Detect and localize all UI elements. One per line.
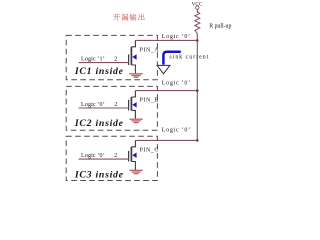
svg-text:IC2 inside: IC2 inside: [74, 118, 124, 129]
transistor Q1 (N-MOSFET): [129, 40, 137, 73]
ground (IC1 source): [129, 74, 142, 77]
IC3 dashed box: [66, 136, 157, 180]
svg-text:Logic ’0’: Logic ’0’: [162, 81, 191, 87]
svg-text:Logic ’0’: Logic ’0’: [81, 153, 105, 159]
svg-text:VCC: VCC: [192, 1, 204, 7]
ground (IC2 source): [129, 119, 142, 122]
wire: gate net IC2: [79, 107, 129, 109]
junction node A: [196, 39, 199, 42]
wire: gate net IC1: [79, 62, 129, 64]
svg-text:PIN_C: PIN_C: [140, 147, 159, 153]
wire: PIN_B net to bus: [135, 90, 197, 92]
wire: PIN_A net to bus: [135, 39, 197, 41]
svg-text:PIN_B: PIN_B: [140, 97, 159, 103]
svg-text:Logic ’0’: Logic ’0’: [81, 102, 105, 108]
svg-text:2: 2: [114, 102, 117, 108]
transistor Q2 (N-MOSFET): [129, 91, 137, 119]
power VCC: [192, 1, 204, 13]
svg-text:Logic ’0’: Logic ’0’: [162, 128, 191, 134]
transistor Q3 (N-MOSFET): [129, 140, 137, 169]
IC2 dashed box: [66, 86, 157, 130]
svg-text:2: 2: [114, 153, 117, 159]
svg-text:IC3 inside: IC3 inside: [74, 170, 124, 181]
svg-text:Logic ’1’: Logic ’1’: [81, 57, 105, 63]
wire: pull-up bus vertical: [196, 33, 198, 140]
svg-text:sink current: sink current: [169, 55, 209, 61]
junction node C: [196, 139, 199, 142]
junction node B: [196, 89, 199, 92]
sink current arrow (blue): [163, 52, 180, 65]
IC1 dashed box: [66, 35, 157, 79]
svg-text:2: 2: [114, 57, 117, 63]
svg-text:IC1 inside: IC1 inside: [74, 66, 124, 77]
ground (IC3 source): [129, 170, 142, 173]
svg-text:PIN_A: PIN_A: [140, 47, 160, 53]
svg-text:Logic ’0’: Logic ’0’: [162, 34, 191, 40]
wire: gate net IC3: [79, 158, 129, 160]
wire: PIN_C net to bus: [135, 139, 197, 141]
resistor R pull-up: [195, 12, 200, 34]
label: title 开漏输出 (open-drain output): [113, 14, 144, 21]
svg-text:R pull-up: R pull-up: [209, 24, 231, 30]
